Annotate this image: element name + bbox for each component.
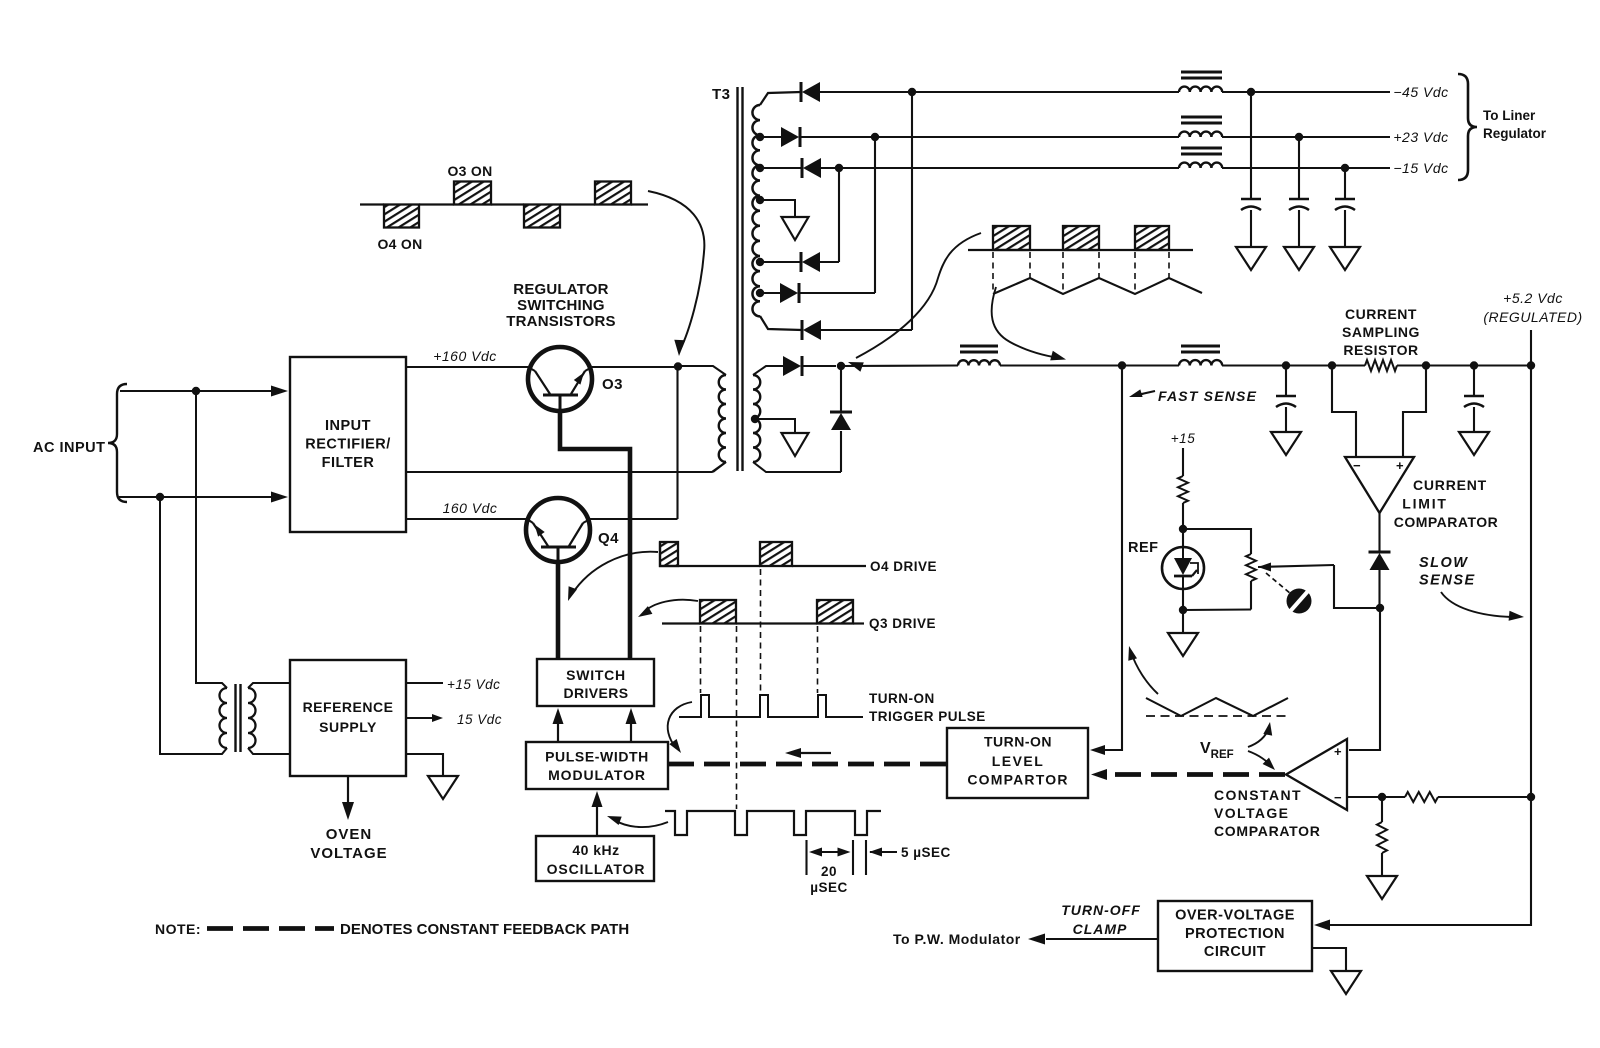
dimension 20 uSEC bbox=[807, 840, 854, 895]
wire diode to slow-sense node bbox=[1378, 570, 1380, 608]
tap node center (ground tap) bbox=[756, 196, 764, 204]
arrow ripple to fast-sense line bbox=[1128, 646, 1158, 694]
wire center tap to ground bbox=[760, 200, 795, 217]
label 160 Vdc bbox=[443, 500, 498, 516]
svg-text:OVEN: OVEN bbox=[326, 826, 373, 843]
svg-text:REFERENCE: REFERENCE bbox=[303, 699, 394, 715]
wire 5V bottom to diode bbox=[840, 431, 842, 472]
label 15 Vdc bbox=[457, 712, 502, 727]
capacitor rail C1 bbox=[1276, 396, 1296, 407]
wire rail cap2 to ground bbox=[1473, 407, 1475, 432]
wire row1 diode to junction bbox=[820, 91, 1179, 93]
svg-text:OVER-VOLTAGE: OVER-VOLTAGE bbox=[1175, 908, 1295, 924]
svg-text:O3: O3 bbox=[602, 376, 623, 393]
transformer T3 secondary winding (5V) bbox=[753, 366, 841, 472]
svg-text:CURRENT: CURRENT bbox=[1413, 477, 1487, 493]
wire 5V top diode to node B bbox=[801, 365, 836, 367]
wire Q4 base (thick) to switch drivers bbox=[556, 563, 561, 659]
svg-text:DENOTES CONSTANT FEEDBACK PATH: DENOTES CONSTANT FEEDBACK PATH bbox=[340, 921, 629, 938]
label T3 bbox=[712, 86, 731, 103]
svg-text:DRIVERS: DRIVERS bbox=[563, 685, 628, 701]
op-amp constant voltage comparator bbox=[1286, 739, 1347, 810]
wire CVC minus to resistor bbox=[1382, 796, 1405, 798]
capacitor &#8722;45 Vdc bbox=[1241, 199, 1261, 210]
diode CR current limit bbox=[1369, 552, 1391, 570]
label VREF bbox=[1200, 740, 1234, 761]
block PULSE-WIDTH MODULATOR bbox=[526, 742, 668, 789]
inductor output filter +23 Vdc bbox=[1179, 117, 1222, 137]
svg-text:+: + bbox=[1396, 458, 1404, 473]
wire +5.2V to over-voltage box bbox=[1320, 797, 1531, 925]
wire rail cap2 stem bbox=[1473, 366, 1475, 397]
reference zener diode (circled) bbox=[1162, 547, 1204, 589]
svg-text:Q3 DRIVE: Q3 DRIVE bbox=[869, 616, 936, 631]
svg-text:−15 Vdc: −15 Vdc bbox=[1393, 160, 1448, 176]
transformer reference secondary bbox=[248, 683, 290, 754]
svg-text:TRIGGER PULSE: TRIGGER PULSE bbox=[869, 709, 986, 724]
waveform PWM dashed verticals bbox=[993, 252, 1169, 294]
wire node A down to Q4 line bbox=[676, 366, 678, 519]
wire REF bottom bbox=[1182, 589, 1184, 610]
wire 5V center tap to ground bbox=[755, 419, 795, 433]
feedback path TOLC to PWM (thick dashed) bbox=[668, 762, 947, 767]
resistor +15 dropping bbox=[1178, 476, 1188, 503]
transformer reference core bbox=[236, 684, 241, 752]
potentiometer voltage adjust bbox=[1246, 554, 1256, 610]
wire tap row6 bbox=[760, 292, 780, 294]
brace AC input bbox=[108, 384, 127, 502]
resistor CVC divider lower bbox=[1377, 822, 1387, 853]
wire REF bottom to pot bottom bbox=[1183, 608, 1251, 611]
wire turn-off clamp output bbox=[1046, 938, 1158, 940]
svg-text:SUPPLY: SUPPLY bbox=[319, 719, 377, 735]
wire row1-row7 vertical bbox=[911, 92, 913, 330]
arrowhead fast sense into comparator bbox=[1090, 745, 1105, 755]
ground &#8722;15 Vdc bbox=[1330, 247, 1360, 270]
ground over-voltage bbox=[1331, 971, 1361, 994]
dashed timing verticals bbox=[701, 569, 818, 809]
wire wiper to slow-sense node bbox=[1334, 565, 1376, 608]
pot wiper arrow bbox=[1258, 563, 1334, 572]
svg-text:TURN-ON: TURN-ON bbox=[869, 691, 935, 706]
wire CVC minus input bbox=[1347, 796, 1378, 798]
label +23 Vdc bbox=[1393, 129, 1448, 145]
svg-text:SWITCH: SWITCH bbox=[566, 667, 626, 683]
wire over-voltage ground bbox=[1312, 948, 1346, 971]
label Q4 bbox=[598, 530, 619, 547]
transformer reference primary bbox=[214, 683, 227, 754]
wire +15 stem bbox=[1182, 448, 1184, 476]
wire rail node B to inductor bbox=[841, 364, 958, 367]
waveform output ripple bbox=[1146, 698, 1288, 716]
inductor output filter &#8722;15 Vdc bbox=[1179, 148, 1222, 168]
svg-text:PROTECTION: PROTECTION bbox=[1185, 926, 1285, 942]
wire fast sense vertical bbox=[1093, 366, 1122, 751]
svg-text:CIRCUIT: CIRCUIT bbox=[1204, 944, 1266, 960]
transistor Q4 bbox=[526, 498, 590, 563]
label To Liner Regulator bbox=[1483, 108, 1547, 141]
wire divider down bbox=[1381, 797, 1383, 822]
wire +160Vdc input-rectifier to Q3 collector bbox=[406, 366, 528, 368]
svg-text:SLOW: SLOW bbox=[1419, 555, 1469, 571]
svg-text:REF: REF bbox=[1128, 540, 1159, 556]
node comparator minus junction bbox=[1328, 361, 1336, 369]
wire tap row3 bbox=[760, 167, 802, 169]
arrow slow sense to +5.2V line bbox=[1441, 592, 1524, 621]
inductor rail L1 bbox=[958, 346, 1000, 366]
diode CR 5V bottom (vertical) bbox=[830, 412, 852, 430]
wire Q3 emitter to node A bbox=[592, 366, 678, 368]
label SLOW SENSE bbox=[1419, 555, 1476, 589]
wire AC input top bbox=[120, 390, 272, 392]
wire comparator plus input bbox=[1403, 366, 1426, 458]
label FAST SENSE bbox=[1129, 388, 1257, 404]
heading CONSTANT VOLTAGE COMPARATOR bbox=[1214, 787, 1321, 839]
node rail cap1 junction bbox=[1282, 361, 1290, 369]
node rail fast-sense junction bbox=[1118, 361, 1126, 369]
svg-text:OSCILLATOR: OSCILLATOR bbox=[547, 861, 646, 877]
svg-text:INPUT: INPUT bbox=[325, 418, 371, 434]
svg-text:20: 20 bbox=[821, 864, 837, 879]
wire rail L1 to junction bbox=[1000, 364, 1179, 366]
node REF top bbox=[1179, 525, 1187, 533]
op-amp current limit comparator bbox=[1345, 457, 1414, 513]
arrow trigger pulse to feedback path bbox=[668, 702, 692, 753]
wire tap row2 bbox=[760, 136, 781, 138]
wire row2 diode to junction bbox=[799, 136, 1179, 138]
waveform PWM pulses (hatched) bbox=[968, 226, 1193, 250]
svg-text:LIMIT: LIMIT bbox=[1402, 496, 1448, 512]
svg-text:LEVEL: LEVEL bbox=[992, 753, 1045, 769]
wire +23 Vdc cap to ground bbox=[1298, 210, 1300, 247]
wire divider to ground bbox=[1381, 853, 1383, 876]
block OVER-VOLTAGE PROTECTION CIRCUIT bbox=[1158, 901, 1312, 971]
svg-text:+23 Vdc: +23 Vdc bbox=[1393, 129, 1448, 145]
arrowhead into over-voltage box bbox=[1314, 920, 1330, 931]
wire 5V diode to node B bbox=[840, 366, 842, 412]
wire AC bottom to reference transformer bbox=[160, 497, 214, 754]
node &#8722;15 Vdc junction bbox=[1341, 164, 1349, 172]
node B (+5V rectified junction) bbox=[837, 362, 845, 370]
transistor Q3 bbox=[528, 347, 592, 411]
heading CURRENT LIMIT COMPARATOR bbox=[1394, 477, 1499, 530]
node +5.2V divider junction bbox=[1527, 793, 1535, 801]
capacitor rail C2 bbox=[1464, 396, 1484, 407]
wire &#8722;45 Vdc cap stem bbox=[1250, 92, 1252, 199]
node comparator plus junction bbox=[1422, 361, 1430, 369]
svg-text:+160 Vdc: +160 Vdc bbox=[433, 348, 497, 364]
node 5V center tap bbox=[751, 415, 759, 423]
ground REF bbox=[1168, 633, 1198, 656]
svg-text:PULSE-WIDTH: PULSE-WIDTH bbox=[545, 749, 649, 765]
svg-text:MODULATOR: MODULATOR bbox=[548, 767, 646, 783]
arrowhead into input rectifier (top) bbox=[271, 386, 288, 397]
tap node row6 bbox=[756, 289, 764, 297]
label +15 Vdc bbox=[447, 677, 500, 692]
svg-text:FAST SENSE: FAST SENSE bbox=[1158, 388, 1257, 404]
svg-text:O4 DRIVE: O4 DRIVE bbox=[870, 559, 937, 574]
svg-text:SWITCHING: SWITCHING bbox=[517, 297, 605, 314]
wire row7 diode to vertical bbox=[821, 329, 912, 331]
diode CR row1 (-45 top) bbox=[801, 82, 820, 102]
arrow oscillator waveform to PWM input bbox=[607, 816, 668, 827]
waveform Q3 drive bbox=[662, 600, 864, 624]
svg-text:15 Vdc: 15 Vdc bbox=[457, 712, 502, 727]
svg-text:+5.2 Vdc: +5.2 Vdc bbox=[1503, 290, 1563, 306]
waveform Q4 drive bbox=[660, 542, 866, 566]
block REFERENCE SUPPLY bbox=[290, 660, 406, 776]
svg-text:TRANSISTORS: TRANSISTORS bbox=[506, 313, 615, 330]
wire 160Vdc to Q4 bbox=[406, 518, 527, 520]
arrow from O3-ON waveform to node A bbox=[648, 191, 704, 356]
arrowhead to P.W. modulator bbox=[1028, 934, 1045, 945]
svg-text:O3 ON: O3 ON bbox=[447, 163, 492, 179]
label TURN-ON TRIGGER PULSE bbox=[869, 691, 986, 724]
label +5.2 Vdc (REGULATED) bbox=[1483, 290, 1582, 325]
diode CR 5V top bbox=[783, 356, 802, 376]
svg-text:To Liner: To Liner bbox=[1483, 108, 1536, 123]
block 40 kHz OSCILLATOR bbox=[536, 836, 654, 881]
diode CR row2 (+23 top) bbox=[781, 127, 800, 147]
node row1 junction x912 bbox=[908, 88, 916, 96]
node row3 junction x839 bbox=[835, 164, 843, 172]
ground rail C2 bbox=[1459, 432, 1489, 455]
wire &#8722;15 Vdc cap stem bbox=[1344, 168, 1346, 199]
wire Q4 emitter to vertical bbox=[590, 518, 678, 520]
wire +15Vdc output bbox=[406, 682, 443, 684]
svg-text:To P.W. Modulator: To P.W. Modulator bbox=[893, 931, 1021, 947]
svg-text:REGULATOR: REGULATOR bbox=[513, 281, 608, 298]
wire row5 diode to vertical bbox=[820, 261, 839, 263]
node slow sense junction bbox=[1376, 604, 1384, 612]
label AC INPUT bbox=[33, 440, 105, 456]
wire reference ground output bbox=[406, 754, 443, 776]
feedback path CVC to TOLC (thick dashed) bbox=[1091, 769, 1285, 780]
wire row6 diode to vertical bbox=[798, 292, 875, 294]
svg-text:RESISTOR: RESISTOR bbox=[1343, 342, 1418, 358]
arrow oscillator to PWM bbox=[592, 791, 603, 836]
wire AC top to reference transformer bbox=[196, 391, 214, 683]
wire +5.2V vertical bbox=[1530, 366, 1532, 798]
node REF bottom bbox=[1179, 606, 1187, 614]
wire resistor to +5.2V bbox=[1438, 796, 1531, 798]
waveform O3-ON/O4-ON switching pulses bbox=[360, 182, 648, 228]
inductor rail L2 bbox=[1179, 346, 1222, 366]
arrow Q4-drive to Q4 base bbox=[568, 552, 658, 601]
arrow PWM waveform to node B bbox=[848, 233, 981, 372]
arrow VREF to ripple level bbox=[1248, 722, 1272, 747]
waveform 40kHz oscillator output bbox=[665, 811, 881, 835]
wire comparator minus input bbox=[1332, 366, 1356, 458]
ground 5V center tap bbox=[782, 433, 809, 456]
tap node row5 bbox=[756, 258, 764, 266]
capacitor &#8722;15 Vdc bbox=[1335, 199, 1355, 210]
svg-text:(REGULATED): (REGULATED) bbox=[1483, 309, 1582, 325]
diode CR row3 (-15 top) bbox=[802, 158, 821, 178]
wire comparator output to diode bbox=[1378, 513, 1380, 552]
svg-text:CLAMP: CLAMP bbox=[1073, 921, 1128, 937]
label +15 bbox=[1171, 431, 1195, 446]
arrow Q3-drive to Q3 base bbox=[638, 600, 698, 617]
wire CVC plus input bbox=[1349, 608, 1380, 750]
label O3 ON bbox=[447, 163, 492, 179]
wire row3-row5 vertical bbox=[838, 168, 840, 262]
label Q3 bbox=[602, 376, 623, 393]
tap node row2 bbox=[756, 133, 764, 141]
waveform inductor-current sawtooth bbox=[993, 278, 1202, 294]
svg-text:SENSE: SENSE bbox=[1419, 573, 1476, 589]
svg-text:T3: T3 bbox=[712, 86, 731, 103]
svg-text:AC INPUT: AC INPUT bbox=[33, 440, 105, 456]
wire tap row5 bbox=[760, 261, 801, 263]
ground CVC divider bbox=[1367, 876, 1397, 899]
svg-text:SAMPLING: SAMPLING bbox=[1342, 324, 1420, 340]
label &#8722;45 Vdc bbox=[1393, 84, 1448, 100]
wire resistor to REF node bbox=[1182, 503, 1184, 547]
svg-text:+15 Vdc: +15 Vdc bbox=[447, 677, 500, 692]
node +5.2V corner bbox=[1527, 361, 1535, 369]
label O4 ON bbox=[377, 236, 422, 252]
wire resistor to cap2 bbox=[1397, 364, 1531, 366]
arrow PWM to switch drivers (left) bbox=[553, 708, 564, 742]
block INPUT RECTIFIER/FILTER bbox=[290, 357, 406, 532]
capacitor +23 Vdc bbox=[1289, 199, 1309, 210]
wire primary return (y=472) bbox=[406, 462, 726, 472]
svg-text:160 Vdc: 160 Vdc bbox=[443, 500, 498, 516]
svg-text:−: − bbox=[1334, 790, 1342, 805]
note legend bbox=[155, 921, 629, 938]
label Q3 DRIVE bbox=[869, 616, 936, 631]
wire &#8722;45 Vdc rail bbox=[1222, 91, 1390, 93]
node row2 junction x875 bbox=[871, 133, 879, 141]
arrow PWM to switch drivers (right) bbox=[626, 708, 637, 742]
ground +23 Vdc bbox=[1284, 247, 1314, 270]
diode CR row7 (-45 bottom) bbox=[802, 320, 821, 340]
label TURN-OFF CLAMP bbox=[1061, 902, 1141, 937]
resistor CVC feedback bbox=[1405, 792, 1438, 802]
waveform Vref dashed level bbox=[1146, 715, 1288, 717]
svg-text:Q4: Q4 bbox=[598, 530, 619, 547]
svg-text:+15: +15 bbox=[1171, 431, 1195, 446]
wire &#8722;15 Vdc rail bbox=[1222, 167, 1390, 169]
node &#8722;45 Vdc junction bbox=[1247, 88, 1255, 96]
wire &#8722;45 Vdc cap to ground bbox=[1250, 210, 1252, 247]
transformer T3 primary winding bbox=[678, 366, 726, 472]
svg-text:CURRENT: CURRENT bbox=[1345, 306, 1417, 322]
svg-text:VOLTAGE: VOLTAGE bbox=[1214, 805, 1289, 821]
svg-text:Regulator: Regulator bbox=[1483, 126, 1547, 141]
arrow VREF to comparator input bbox=[1248, 751, 1275, 770]
screwdriver adjust symbol bbox=[1287, 589, 1312, 614]
svg-text:COMPARATOR: COMPARATOR bbox=[1214, 823, 1321, 839]
wire 15Vdc output bbox=[406, 714, 443, 722]
svg-text:TURN-ON: TURN-ON bbox=[984, 734, 1052, 750]
wire AC input bottom bbox=[119, 496, 272, 498]
svg-text:TURN-OFF: TURN-OFF bbox=[1061, 902, 1141, 918]
svg-text:VOLTAGE: VOLTAGE bbox=[310, 845, 387, 862]
label To P.W. Modulator bbox=[893, 931, 1021, 947]
svg-text:NOTE:: NOTE: bbox=[155, 921, 201, 937]
diode CR row6 (+23 bottom) bbox=[780, 283, 799, 303]
wire REF top to pot bbox=[1183, 529, 1251, 554]
resistor current sampling bbox=[1365, 360, 1397, 371]
tap node row3 bbox=[756, 164, 764, 172]
svg-text:+: + bbox=[1334, 744, 1342, 759]
heading CURRENT SAMPLING RESISTOR bbox=[1342, 306, 1420, 358]
node AC bottom junction bbox=[156, 493, 164, 501]
arrow feedback direction bbox=[785, 748, 831, 758]
waveform turn-on trigger pulse bbox=[679, 695, 863, 717]
wire rail L2 to resistor bbox=[1222, 364, 1365, 366]
wire +23 Vdc rail bbox=[1222, 136, 1390, 138]
svg-text:CONSTANT: CONSTANT bbox=[1214, 787, 1302, 803]
node +23 Vdc junction bbox=[1295, 133, 1303, 141]
ground rail C1 bbox=[1271, 432, 1301, 455]
arrow oven voltage output bbox=[342, 776, 354, 820]
ground &#8722;45 Vdc bbox=[1236, 247, 1266, 270]
block SWITCH DRIVERS bbox=[537, 659, 654, 706]
svg-text:FILTER: FILTER bbox=[322, 455, 375, 471]
svg-text:RECTIFIER/: RECTIFIER/ bbox=[305, 437, 391, 453]
wire REF bottom ground stem bbox=[1182, 610, 1184, 633]
svg-text:40 kHz: 40 kHz bbox=[572, 842, 619, 858]
dashed wiper to screwdriver bbox=[1266, 573, 1291, 594]
label +160 Vdc bbox=[433, 348, 497, 364]
label REF bbox=[1128, 540, 1159, 556]
wire rail cap1 stem bbox=[1285, 366, 1287, 397]
transformer T3 core bbox=[738, 87, 743, 471]
block TURN-ON LEVEL COMPARTOR bbox=[947, 728, 1088, 798]
wire row2-row6 vertical bbox=[874, 137, 876, 293]
node AC top junction bbox=[192, 387, 200, 395]
wire rail cap1 to ground bbox=[1285, 407, 1287, 432]
ground T3 center tap bbox=[782, 217, 809, 240]
arrow sawtooth to rail bbox=[992, 287, 1066, 360]
svg-text:5 µSEC: 5 µSEC bbox=[901, 845, 951, 860]
inductor output filter &#8722;45 Vdc bbox=[1179, 72, 1222, 92]
wire row3 diode to junction bbox=[821, 167, 1179, 169]
svg-text:COMPARATOR: COMPARATOR bbox=[1394, 514, 1499, 530]
transformer T3 secondary winding (top) bbox=[752, 92, 802, 330]
label &#8722;15 Vdc bbox=[1393, 160, 1448, 176]
diode CR row5 (-15 bottom) bbox=[801, 252, 820, 272]
node CVC divider junction bbox=[1378, 793, 1386, 801]
dimension 5 uSEC bbox=[866, 840, 951, 875]
node A (primary top junction) bbox=[674, 362, 682, 370]
ground reference supply bbox=[428, 776, 458, 799]
brace To Liner Regulator bbox=[1458, 74, 1477, 180]
label OVEN VOLTAGE bbox=[310, 826, 387, 862]
svg-text:µSEC: µSEC bbox=[810, 880, 848, 895]
wire &#8722;15 Vdc cap to ground bbox=[1344, 210, 1346, 247]
svg-text:−45 Vdc: −45 Vdc bbox=[1393, 84, 1448, 100]
svg-text:COMPARTOR: COMPARTOR bbox=[967, 772, 1068, 788]
svg-text:−: − bbox=[1353, 458, 1361, 473]
wire +5.2V stub up bbox=[1530, 330, 1532, 366]
arrowhead into input rectifier (bottom) bbox=[271, 492, 288, 503]
node rail cap2 junction bbox=[1470, 361, 1478, 369]
heading REGULATOR SWITCHING TRANSISTORS bbox=[506, 281, 615, 330]
label O4 DRIVE bbox=[870, 559, 937, 574]
wire +23 Vdc cap stem bbox=[1298, 137, 1300, 199]
svg-text:O4 ON: O4 ON bbox=[377, 236, 422, 252]
wire Q3 base (thick) to switch drivers bbox=[560, 411, 630, 659]
